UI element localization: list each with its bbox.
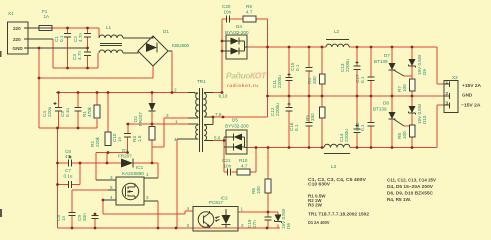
svg-text:27n: 27n (252, 220, 257, 228)
TR1 secondary winding pins 5,6 (204, 125, 207, 141)
scan edge artifact top (0, 51, 2, 57)
svg-text:0.1: 0.1 (360, 124, 365, 131)
connector X2 (444, 81, 458, 113)
capacitor C8 (69, 213, 76, 216)
thyristor D8 (389, 112, 396, 119)
capacitor C12 (286, 108, 293, 112)
capacitor C21 (228, 169, 231, 176)
wire: neutral drop x53 (52, 39, 54, 68)
svg-text:47: 47 (65, 154, 71, 159)
svg-text:10n: 10n (224, 10, 232, 15)
wire: -15 corner to X2 pin3 (437, 105, 444, 148)
svg-text:2200u: 2200u (277, 75, 282, 88)
SECTION:RIGHT (265, 40, 459, 224)
wire: bridge bottom stub x153 (152, 66, 154, 78)
wire: opto pin4 jog x185 (185, 211, 193, 214)
svg-text:D4, D5 15−20A 200V: D4, D5 15−20A 200V (387, 184, 434, 189)
wire: primary ground rail y227.5 (58, 227, 281, 229)
svg-text:220: 220 (13, 26, 21, 31)
inductor L3 (324, 144, 350, 147)
resistor R6 (265, 179, 271, 193)
wire: R5 legs x322 (321, 96, 323, 148)
SECTION:MIDDLE (177, 16, 256, 176)
svg-text:1n: 1n (61, 215, 66, 221)
diode D3 (121, 159, 133, 168)
capacitor C15 (306, 68, 313, 72)
wire: C7 branch x80 (79, 163, 81, 185)
resistor R2 (105, 132, 111, 146)
wire: R1 legs x97 (96, 93, 98, 129)
thyristor D7 (389, 63, 396, 70)
capacitor C1 (64, 34, 71, 38)
bridge rectifier D1 (138, 36, 168, 66)
svg-text:220k: 220k (95, 136, 100, 147)
svg-text:100: 100 (256, 186, 261, 194)
capacitor C3 (84, 52, 91, 56)
wire: C9 leg x95 (94, 214, 96, 228)
wire: +15 rail A y47 (268, 46, 438, 48)
wire: D5 cathode column x224 (223, 137, 225, 172)
X1 pin stub 220 bottom (24, 38, 53, 40)
inductor L2 (326, 44, 349, 47)
optocoupler IC2 PC817 (193, 207, 238, 232)
svg-text:radiokot.ru: radiokot.ru (227, 83, 259, 88)
wire: pin3 winding riser x164 (163, 118, 165, 147)
capacitor C9 (92, 216, 99, 219)
svg-text:TR1 T18.7.7.7.18.2002 1502: TR1 T18.7.7.7.18.2002 1502 (308, 212, 369, 217)
capacitor C11 (286, 78, 293, 81)
svg-text:100: 100 (402, 84, 407, 92)
resistor R1 (94, 105, 100, 118)
dual diode D5 BYV32-200 (226, 130, 247, 154)
svg-text:470k: 470k (87, 106, 92, 117)
capacitor C13 (354, 66, 361, 70)
svg-text:R4, R5 1W.: R4, R5 1W. (387, 197, 411, 202)
choke L1 core (100, 44, 122, 46)
wire: C11 legs x289 (288, 47, 290, 96)
wire: riser to L1 lower coil x98 (97, 53, 99, 68)
svg-text:+15V 2A: +15V 2A (462, 83, 482, 88)
IC1 pin stubs (96, 179, 116, 181)
svg-text:FR207: FR207 (138, 112, 143, 126)
resistor R5 (319, 107, 325, 118)
svg-text:2: 2 (241, 223, 244, 228)
wire: R6 C19 column x268 (267, 148, 269, 228)
wire: DC- link y78 to bridge bottom (39, 77, 153, 79)
svg-text:4.7n: 4.7n (77, 51, 82, 60)
wire: C18 legs x371 (370, 96, 372, 148)
wire: D8 legs x392 (391, 96, 393, 148)
wire: IC pin5 wire y190 (72, 189, 116, 191)
svg-text:1: 1 (446, 80, 449, 85)
svg-text:R3 2W: R3 2W (308, 203, 323, 208)
diode D2 (149, 103, 156, 111)
svg-text:2200u: 2200u (275, 103, 280, 116)
resistor R3 (149, 127, 155, 141)
X1 pin stub GND (24, 47, 88, 49)
svg-text:9,10: 9,10 (219, 94, 228, 99)
wire: C8 leg x72 (71, 190, 73, 228)
wire: D8 gate link (404, 125, 412, 127)
capacitor C17 (368, 77, 375, 81)
wire: D7 gate link (404, 75, 412, 77)
svg-text:GND: GND (13, 46, 24, 51)
resistor R7 (409, 79, 415, 91)
resistor R8 (409, 125, 415, 137)
wire: L1 top coil entry x99 (98, 28, 100, 38)
wire: Vcc to IC pin1 x158 (157, 163, 159, 178)
svg-text:FR207: FR207 (118, 154, 132, 159)
svg-text:L2: L2 (334, 29, 340, 34)
wire: snubber bottom node y147 (152, 146, 164, 148)
wire: C13 legs x357 (356, 47, 358, 96)
svg-text:BYV32-200: BYV32-200 (225, 30, 249, 35)
svg-text:KBU800: KBU800 (172, 43, 190, 48)
wire: GND mid rail y96 (268, 95, 445, 97)
opto LED (222, 215, 231, 224)
wire: Vcc wire y163 (58, 162, 159, 164)
wire: C15 legs x308 (308, 47, 310, 96)
wire: opto pin1 wire y212 (238, 211, 278, 213)
scan edge artifact bottom (0, 209, 2, 217)
svg-text:4: 4 (174, 137, 177, 142)
wire: D5 snubber wire y172 (224, 171, 256, 173)
zener D9 (409, 59, 416, 66)
wire: D5 output -15 rail y147.5 (247, 147, 437, 149)
TR1 aux winding pins 1-4 (196, 125, 198, 139)
wire: C10 top stub x128 (127, 124, 129, 134)
wire: bridge plus drop x172 (171, 51, 173, 93)
TR1 primary winding pins 2-3 (196, 93, 198, 117)
svg-text:5: 5 (110, 185, 113, 190)
wire: TR1 pin56 wire y140.5 (213, 140, 224, 142)
svg-text:D1: D1 (163, 29, 169, 34)
svg-text:D4: D4 (236, 24, 242, 29)
svg-text:2: 2 (174, 88, 177, 93)
wire: C7 wire y184.5 (58, 184, 81, 186)
capacitor C19 (265, 217, 272, 220)
svg-text:4.7: 4.7 (246, 10, 253, 15)
svg-text:X1: X1 (8, 11, 14, 16)
wire: EMI cap1 legs x67.5 (67, 28, 69, 68)
wire: C5 legs x78 (77, 93, 79, 129)
svg-text:1A: 1A (44, 14, 51, 19)
wire: line from fuse to EMI caps y28 (52, 27, 99, 29)
svg-text:PC817: PC817 (209, 200, 223, 205)
zener D6 (275, 215, 282, 222)
wire: D6 column x278 (277, 212, 279, 228)
wire: snubber chain x149 (151, 93, 153, 148)
wire: D10 R8 legs x412 (411, 96, 413, 148)
svg-text:1: 1 (146, 172, 149, 177)
wire: C17 legs x371 (370, 47, 372, 96)
SECTION:WIRES (39, 19, 444, 228)
svg-text:D6, D9, D10 BZX55C: D6, D9, D10 BZX55C (387, 191, 434, 196)
svg-text:D5: D5 (232, 118, 238, 123)
wire: DC- rail y128 (39, 127, 97, 129)
X1 pin stub 220 top (24, 27, 39, 29)
svg-text:0.1u: 0.1u (65, 108, 70, 117)
zener D10 (409, 106, 416, 113)
transformer TR1 core (200, 88, 203, 152)
svg-text:D1 2A 400V: D1 2A 400V (308, 220, 330, 225)
svg-text:BYV32-200: BYV32-200 (225, 124, 249, 129)
svg-text:−15V 2A: −15V 2A (461, 103, 481, 108)
watermark radiokot (226, 71, 267, 89)
fuse F1 (39, 26, 52, 31)
svg-text:4: 4 (110, 195, 113, 200)
svg-text:TR1: TR1 (197, 79, 206, 84)
resistor R4 (319, 74, 325, 84)
svg-text:10n: 10n (224, 164, 232, 169)
svg-text:D9: D9 (422, 69, 427, 75)
svg-text:220: 220 (13, 37, 21, 42)
svg-text:0.1u: 0.1u (64, 174, 73, 179)
svg-text:1: 1 (241, 207, 244, 212)
wire: EMI bottom rail y68 (53, 67, 98, 69)
svg-text:C7: C7 (65, 168, 71, 173)
svg-text:4.7: 4.7 (241, 164, 248, 169)
svg-text:3: 3 (187, 223, 190, 228)
wire: IC pin4 drop x103 (102, 200, 104, 214)
svg-text:C21: C21 (222, 158, 231, 163)
svg-text:C20: C20 (222, 4, 231, 9)
svg-text:D7: D7 (384, 53, 390, 58)
wire: snubber up x256 (255, 148, 257, 173)
svg-text:R10: R10 (239, 158, 248, 163)
svg-text:2: 2 (446, 91, 449, 96)
svg-text:3: 3 (110, 175, 113, 180)
svg-text:0.1: 0.1 (360, 76, 365, 83)
svg-text:IC1: IC1 (136, 165, 144, 170)
svg-text:220u: 220u (47, 106, 52, 117)
svg-text:2200u: 2200u (345, 59, 350, 72)
wire: IC pin2 drop x158 (157, 201, 159, 228)
svg-text:1: 1 (175, 119, 178, 124)
dual diode D4 BYV32-200 (226, 35, 247, 59)
svg-text:BT139: BT139 (374, 59, 388, 64)
capacitor C18 (368, 123, 375, 127)
SECTION:LEFT (8, 22, 239, 231)
wire: C14 legs x357 (356, 96, 358, 148)
wire: D4 anode column x222 (221, 19, 223, 93)
svg-text:GND: GND (462, 93, 473, 98)
svg-text:7,8: 7,8 (215, 112, 222, 117)
svg-text:330: 330 (310, 113, 315, 121)
wire: EMI cap3 legs x87.5 (87, 48, 89, 68)
capacitor C10 (124, 134, 131, 138)
wire: R2/C10 bottom rail y152.5 (96, 152, 129, 154)
wire: DC+ rail y92.5 (56, 92, 188, 94)
resistor R9 (243, 16, 256, 22)
capacitor C5 (75, 108, 82, 112)
IC1 KA2S0880 (116, 177, 144, 205)
svg-text:D8: D8 (383, 101, 389, 106)
svg-text:0.1: 0.1 (295, 64, 300, 71)
wire: pin3 riser x96 (95, 153, 97, 181)
wire: R2C10 to Vcc drop x107 (106, 153, 108, 164)
resistor R10 (237, 169, 250, 175)
svg-text:330: 330 (312, 76, 317, 84)
svg-text:KA2S0880: KA2S0880 (122, 171, 144, 176)
svg-text:BT139: BT139 (373, 107, 387, 112)
capacitor C6 (69, 160, 72, 167)
TR1 secondary winding pins 9,10-7,8 (204, 93, 206, 117)
svg-text:0.1: 0.1 (294, 124, 299, 131)
wire: D9 R7 legs x412 (411, 47, 413, 96)
wire: snubber right drop x267.5 (267, 19, 269, 47)
wire: TR1 pin1 wire y124 (126, 123, 188, 125)
wire L1 to bridge top (123, 36, 153, 38)
wire: center tap riser x267.5 (267, 47, 269, 117)
svg-text:3: 3 (446, 101, 449, 106)
svg-text:2: 2 (146, 195, 149, 200)
wire L1 to bridge left (123, 51, 138, 53)
wire: center tap wire y117 (213, 116, 268, 118)
svg-text:C11, C12, C13, C14 25V: C11, C12, C13, C14 25V (387, 178, 437, 183)
choke L1 top winding (99, 35, 123, 38)
svg-text:0.1: 0.1 (59, 35, 64, 42)
capacitor C7 (69, 181, 72, 188)
wire: left source drop x57.5 (57, 128, 59, 228)
connector X1 (8, 22, 29, 54)
svg-text:C10 630V: C10 630V (308, 182, 331, 187)
wire: TR1 pin3 wire y118 (164, 117, 188, 119)
svg-text:100: 100 (402, 131, 407, 139)
svg-text:3: 3 (166, 113, 169, 118)
wire: C10 bottom stub x127 (127, 137, 129, 153)
wire: C12 legs x289 (288, 96, 290, 148)
capacitor C2 (84, 34, 91, 38)
svg-text:2200u: 2200u (344, 129, 349, 142)
wire: node drop to Vcc wire (151, 147, 153, 163)
svg-text:4: 4 (187, 206, 190, 211)
opto LED arrows (216, 217, 220, 222)
wire: D7 legs x392 (391, 47, 393, 96)
capacitor C4 (55, 108, 62, 112)
wire: D4 output stub y47 (247, 46, 268, 48)
svg-text:X2: X2 (452, 75, 458, 80)
svg-text:1.5: 1.5 (137, 135, 142, 142)
svg-text:L1: L1 (106, 25, 112, 30)
choke L1 bottom winding (99, 50, 123, 53)
wire: aux return x173 (176, 139, 178, 228)
wire: EMI cap2 legs x87.5 (87, 28, 89, 48)
wire: feedback wire y214 (103, 213, 185, 215)
wire: D4 snubber wire y19 (222, 18, 268, 20)
svg-text:РадиоКОТ: РадиоКОТ (226, 71, 267, 81)
svg-text:D6: D6 (286, 223, 291, 229)
wire: GND drop x39 to DC- (38, 48, 40, 128)
svg-text:R9: R9 (246, 4, 252, 9)
wire: R4 legs x322 (321, 47, 323, 96)
svg-text:33n: 33n (82, 213, 87, 221)
svg-text:D10: D10 (422, 115, 427, 124)
capacitor C20 (227, 16, 230, 23)
svg-text:L3: L3 (331, 164, 337, 169)
wire: R2 top drop x108 (107, 93, 109, 133)
svg-text:4.7n: 4.7n (78, 33, 83, 42)
svg-text:5,6: 5,6 (214, 136, 221, 141)
svg-text:1n: 1n (117, 136, 122, 142)
wire: rail A corner to X2 pin1 (437, 47, 444, 84)
wire: TR1 pin910 wire y92.5 (213, 92, 222, 94)
wire: C4 legs x58.5 (58, 93, 60, 129)
capacitor C16 (306, 123, 313, 127)
capacitor C14 (354, 129, 361, 133)
wire: C16 legs x308 (308, 96, 310, 148)
